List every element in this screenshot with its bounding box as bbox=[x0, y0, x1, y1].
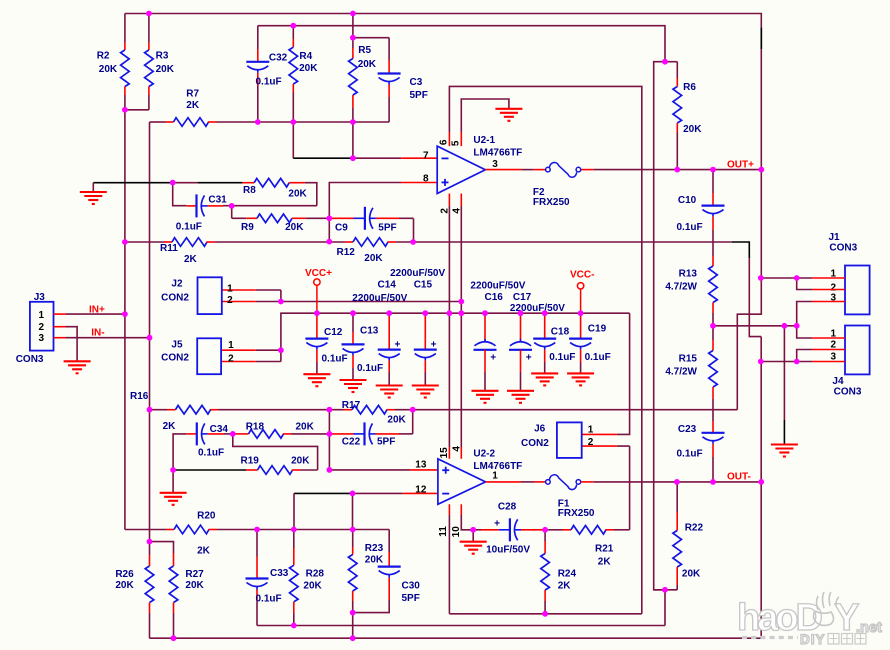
wire pin11 bottom row y=613.8 bbox=[449, 613, 641, 615]
node dots R11/R12 row bbox=[122, 239, 416, 245]
svg-text:C12: C12 bbox=[324, 327, 343, 338]
svg-text:OUT-: OUT- bbox=[727, 472, 751, 483]
wire vertical node x=329.4 from row409 to pin13 bbox=[328, 410, 330, 470]
svg-text:U2-2: U2-2 bbox=[473, 449, 495, 460]
capacitor C34 bbox=[186, 422, 233, 458]
svg-text:R23: R23 bbox=[365, 543, 384, 554]
resistor R5 bbox=[349, 38, 377, 122]
capacitor C12 bbox=[305, 313, 347, 374]
svg-text:5PF: 5PF bbox=[402, 593, 420, 604]
power symbol VCC- bbox=[570, 270, 594, 314]
svg-text:20K: 20K bbox=[288, 189, 307, 200]
resistor R12 bbox=[337, 238, 397, 264]
svg-text:R13: R13 bbox=[679, 269, 698, 280]
capacitor C28 electrolytic bbox=[473, 502, 545, 556]
wire pin13 row bbox=[329, 469, 410, 471]
svg-text:2200uF/50V: 2200uF/50V bbox=[470, 281, 525, 292]
wire OUT- row after fuse F1 bbox=[581, 481, 594, 483]
wire C34 bracket and row y=433.9 bbox=[173, 434, 186, 470]
wire J4 pin2 row bbox=[797, 350, 812, 362]
svg-text:+: + bbox=[395, 340, 401, 351]
resistor R24 bbox=[541, 530, 577, 614]
wire J1 pin3 row bbox=[797, 302, 812, 326]
svg-text:R24: R24 bbox=[558, 569, 577, 580]
svg-text:10uF/50V: 10uF/50V bbox=[486, 545, 530, 556]
svg-text:C33: C33 bbox=[270, 568, 289, 579]
svg-text:20K: 20K bbox=[285, 222, 304, 233]
svg-text:R3: R3 bbox=[156, 51, 169, 62]
svg-text:20K: 20K bbox=[364, 253, 383, 264]
ground symbol C15 bbox=[412, 384, 439, 386]
node IN+ rail1 bbox=[122, 311, 128, 317]
node dots top rail bbox=[146, 11, 356, 17]
ground symbol C12 bbox=[303, 373, 330, 375]
node dots C28 row bbox=[470, 527, 548, 533]
svg-text:0.1uF: 0.1uF bbox=[256, 77, 282, 88]
svg-text:20K: 20K bbox=[296, 422, 315, 433]
svg-text:0.1uF: 0.1uF bbox=[677, 449, 703, 460]
node R5 top bbox=[350, 35, 356, 41]
svg-text:5: 5 bbox=[451, 140, 462, 146]
svg-text:3: 3 bbox=[38, 333, 44, 344]
svg-text:C34: C34 bbox=[210, 424, 229, 435]
resistor R20 bbox=[166, 511, 217, 557]
connector J6 bbox=[521, 422, 594, 458]
wire R13 bottom row to connector bracket bbox=[713, 325, 797, 327]
svg-text:R16: R16 bbox=[130, 391, 149, 402]
node R2/R3 bottom bbox=[122, 107, 128, 113]
connector J3 bbox=[16, 292, 66, 365]
svg-text:R12: R12 bbox=[337, 247, 356, 258]
wire ground stub node A bbox=[172, 470, 174, 493]
capacitor C19 bbox=[569, 313, 611, 373]
wire left rail2 from R7 corner down bbox=[149, 122, 151, 555]
svg-text:1: 1 bbox=[588, 425, 594, 436]
wire pin8 red lead bbox=[401, 182, 437, 184]
svg-text:J4: J4 bbox=[832, 376, 844, 387]
svg-text:2: 2 bbox=[588, 437, 594, 448]
wire J4 pin3 row bbox=[761, 361, 812, 363]
wire pin12 row black and corner bbox=[294, 492, 353, 494]
svg-text:4: 4 bbox=[452, 208, 463, 214]
node pin7 row bbox=[350, 155, 356, 161]
svg-text:0.1uF: 0.1uF bbox=[198, 447, 224, 458]
wire rail A red ends bbox=[448, 194, 450, 207]
wire R7 row y=122 bbox=[150, 121, 166, 123]
svg-text:2: 2 bbox=[227, 295, 233, 306]
svg-text:2K: 2K bbox=[186, 100, 200, 111]
svg-text:10: 10 bbox=[451, 526, 462, 538]
node R23/C30 bottom bbox=[350, 610, 356, 616]
wire ground row maroon middle bbox=[173, 182, 198, 184]
capacitor C23 bbox=[677, 421, 725, 482]
svg-text:+: + bbox=[431, 340, 437, 351]
svg-text:DIY: DIY bbox=[800, 632, 826, 647]
svg-text:C30: C30 bbox=[402, 581, 421, 592]
wire supply rail A x=449.4 between op-amps bbox=[448, 206, 450, 447]
svg-text:R17: R17 bbox=[342, 400, 361, 411]
svg-text:J3: J3 bbox=[34, 292, 46, 303]
resistor R7 bbox=[166, 89, 217, 127]
wire J3 pin1 IN+ to rail1 bbox=[66, 313, 125, 315]
resistor R3 bbox=[125, 14, 175, 110]
node R6/rail654 bbox=[662, 59, 668, 65]
svg-text:C14: C14 bbox=[378, 280, 397, 291]
node dots R13 row bbox=[710, 323, 800, 329]
svg-text:20K: 20K bbox=[303, 580, 322, 591]
node IN- rail2 bbox=[147, 335, 153, 341]
wire vertical x=352.5 pin12 row to R20 row bbox=[352, 493, 354, 529]
svg-text:4.7/2W: 4.7/2W bbox=[665, 282, 697, 293]
wire J2 pin red leads bbox=[222, 289, 256, 291]
svg-text:6: 6 bbox=[439, 139, 450, 145]
wire pin10 corner to C28 row bbox=[460, 504, 462, 515]
wire R8 right bracket to C31 row bbox=[305, 183, 317, 206]
wire J1 pin1 row bbox=[761, 277, 812, 279]
capacitor C10 bbox=[677, 170, 725, 256]
svg-text:8: 8 bbox=[423, 174, 429, 185]
svg-text:C22: C22 bbox=[342, 436, 361, 447]
ground symbol C13 bbox=[340, 379, 367, 381]
svg-text:U2-1: U2-1 bbox=[473, 135, 495, 146]
svg-text:0.1uF: 0.1uF bbox=[677, 222, 703, 233]
connector J5 bbox=[161, 338, 234, 374]
svg-text:R28: R28 bbox=[306, 569, 325, 580]
svg-text:0.1uF: 0.1uF bbox=[357, 363, 383, 374]
resistor R6 bbox=[673, 62, 702, 170]
svg-text:CON3: CON3 bbox=[834, 387, 862, 398]
svg-text:1: 1 bbox=[38, 310, 44, 321]
wire rail B red ends bbox=[460, 194, 462, 207]
capacitor C31 bbox=[176, 194, 227, 232]
svg-text:R11: R11 bbox=[160, 243, 178, 254]
resistor R16 bbox=[130, 391, 210, 432]
ground symbol C19 bbox=[567, 372, 594, 374]
node dots feedback row y=409.7 bbox=[147, 407, 416, 413]
svg-text:2K: 2K bbox=[184, 254, 198, 265]
capacitor C14 electrolytic bbox=[378, 313, 401, 385]
node dots J1 rows bbox=[758, 275, 800, 281]
svg-text:R18: R18 bbox=[246, 422, 265, 433]
node C31 right bbox=[229, 203, 235, 209]
connector J2 bbox=[161, 277, 233, 314]
svg-text:R22: R22 bbox=[685, 523, 704, 534]
svg-text:2K: 2K bbox=[558, 581, 572, 592]
wire pin7 row black segment bbox=[293, 157, 353, 159]
resistor R18 bbox=[233, 422, 330, 439]
svg-text:20K: 20K bbox=[185, 580, 204, 591]
wire pin8 corner and vertical to R9/C9 row bbox=[329, 183, 401, 242]
svg-text:20K: 20K bbox=[387, 415, 406, 426]
resistor R26 bbox=[115, 555, 153, 638]
svg-text:1: 1 bbox=[492, 471, 498, 482]
svg-text:20K: 20K bbox=[683, 124, 702, 135]
wire R5/C3 top bracket bbox=[353, 14, 389, 38]
svg-text:R15: R15 bbox=[679, 354, 698, 365]
ground symbol C28 row bbox=[460, 541, 487, 543]
wire C31 row bbox=[173, 183, 187, 206]
resistor R17 bbox=[342, 400, 407, 426]
ground symbol node A bbox=[160, 492, 187, 494]
svg-text:0.1uF: 0.1uF bbox=[322, 354, 348, 365]
svg-text:R7: R7 bbox=[186, 89, 199, 100]
svg-text:0.1uF: 0.1uF bbox=[549, 352, 575, 363]
wire pin7 feed verticals bbox=[292, 122, 294, 158]
wire R19 row black segment bbox=[174, 469, 246, 471]
svg-text:CON2: CON2 bbox=[161, 353, 189, 364]
svg-text:FRX250: FRX250 bbox=[558, 508, 595, 519]
wire J4 pin1 row bbox=[797, 326, 812, 338]
svg-text:20K: 20K bbox=[682, 569, 701, 580]
svg-text:R27: R27 bbox=[185, 569, 204, 580]
node ground row / C31 bbox=[170, 180, 176, 186]
svg-text:2: 2 bbox=[228, 353, 234, 364]
svg-text:2K: 2K bbox=[598, 557, 612, 568]
svg-text:11: 11 bbox=[438, 526, 449, 537]
svg-text:C23: C23 bbox=[678, 424, 697, 435]
wire pin12 row maroon and red bbox=[353, 492, 403, 494]
svg-text:3: 3 bbox=[492, 159, 498, 170]
capacitor C30 bbox=[353, 530, 421, 613]
node R28 bottom bbox=[291, 623, 297, 629]
node dots OUT+ row bbox=[674, 167, 764, 173]
resistor R13 bbox=[665, 256, 717, 326]
fuse F1 bbox=[546, 475, 595, 519]
wire J3 pin3 IN- to rail2 bbox=[66, 337, 150, 339]
wire ground stub for connectors bbox=[783, 326, 785, 420]
svg-text:+: + bbox=[526, 353, 532, 364]
watermark haoDIY logo bbox=[737, 592, 882, 647]
resistor R27 bbox=[169, 553, 204, 638]
node dots J4 row bbox=[758, 359, 800, 365]
svg-text:C18: C18 bbox=[551, 327, 570, 338]
ground symbol pin5 bbox=[495, 108, 522, 110]
node pin12 row bbox=[350, 491, 356, 497]
svg-text:C32: C32 bbox=[269, 53, 288, 64]
svg-text:13: 13 bbox=[415, 460, 427, 471]
svg-text:R19: R19 bbox=[241, 456, 260, 467]
wire OUT+ row after fuse F2 bbox=[581, 169, 594, 171]
op-amp U2-2 bbox=[438, 449, 522, 505]
resistor R2 bbox=[97, 14, 129, 110]
wire bus1 J2 to rail B y=301.5 bbox=[256, 290, 462, 302]
svg-text:C31: C31 bbox=[208, 195, 227, 206]
svg-text:C3: C3 bbox=[410, 77, 423, 88]
wire J6 pin1 drop from bus2 bbox=[617, 313, 630, 434]
svg-text:C10: C10 bbox=[678, 195, 697, 206]
wire black corner of R11/R12 row bbox=[732, 242, 750, 258]
capacitor C22 bbox=[329, 422, 412, 447]
svg-text:VCC-: VCC- bbox=[570, 270, 594, 281]
svg-text:+: + bbox=[490, 353, 496, 364]
node R9/pin8 bbox=[326, 215, 332, 221]
op-amp U2-1 bbox=[437, 135, 522, 194]
svg-text:J2: J2 bbox=[171, 279, 183, 290]
wire jog to J4 node, OUT- rail down to bottom rail bbox=[149, 258, 761, 638]
svg-text:VCC+: VCC+ bbox=[305, 268, 332, 279]
capacitor C17 electrolytic bbox=[509, 313, 532, 391]
svg-text:IN+: IN+ bbox=[89, 305, 105, 316]
wire J3 pin2 to ground bbox=[66, 327, 77, 362]
node dots bus2 VCC+ bbox=[314, 310, 583, 316]
svg-text:4: 4 bbox=[451, 446, 462, 452]
wire J5 pin red leads bbox=[221, 349, 256, 351]
capacitor C32 bbox=[246, 26, 287, 122]
svg-text:5PF: 5PF bbox=[377, 436, 395, 447]
svg-text:J5: J5 bbox=[171, 339, 183, 350]
svg-text:J1: J1 bbox=[829, 232, 841, 243]
svg-text:5PF: 5PF bbox=[410, 90, 428, 101]
capacitor C16 electrolytic bbox=[474, 313, 497, 391]
capacitor C18 bbox=[533, 313, 575, 373]
wire pin1 output leads bbox=[486, 481, 522, 483]
wire pin7 row to op-amp bbox=[353, 157, 401, 159]
wire supply rail B x=461.3 between op-amps bbox=[460, 206, 462, 447]
wire left rail1 from R2/R3 bottom down bbox=[124, 110, 126, 530]
svg-text:20K: 20K bbox=[365, 555, 384, 566]
resistor R4 bbox=[289, 26, 318, 122]
wire R20 row y=529.5 bbox=[125, 529, 166, 531]
wire C9 right corner down bbox=[413, 218, 415, 242]
wire bus2 VCC+ y=313.2 from J5 riser to J6 corner bbox=[256, 313, 630, 361]
ground symbol connectors bbox=[771, 443, 798, 445]
resistor R22 bbox=[673, 482, 704, 590]
svg-text:C15: C15 bbox=[414, 280, 433, 291]
svg-text:IN-: IN- bbox=[91, 328, 104, 339]
wire rail x=654 from node down to R22 bottom row bbox=[654, 62, 665, 590]
resistor R23 bbox=[348, 530, 384, 639]
connector J1 bbox=[829, 232, 870, 314]
svg-text:J6: J6 bbox=[534, 424, 546, 435]
svg-text:2: 2 bbox=[38, 322, 44, 333]
resistor R21 bbox=[545, 526, 630, 568]
resistor R19 bbox=[241, 456, 318, 475]
svg-text:CON2: CON2 bbox=[161, 292, 189, 303]
svg-text:R9: R9 bbox=[241, 222, 254, 233]
svg-text:OUT+: OUT+ bbox=[727, 160, 754, 171]
wire C31 to R9 bracket bbox=[231, 206, 233, 219]
svg-text:R21: R21 bbox=[595, 544, 614, 555]
svg-text:FRX250: FRX250 bbox=[533, 197, 570, 208]
power symbol VCC+ bbox=[305, 268, 332, 313]
svg-text:0.1uF: 0.1uF bbox=[256, 593, 282, 604]
ground symbol C17 bbox=[507, 390, 534, 392]
svg-text:20K: 20K bbox=[115, 580, 134, 591]
ground symbol C18 bbox=[531, 372, 558, 374]
svg-text:C17: C17 bbox=[513, 292, 532, 303]
svg-text:R26: R26 bbox=[115, 569, 134, 580]
svg-text:12: 12 bbox=[415, 485, 427, 496]
wire pin5 to ground bbox=[461, 99, 509, 132]
wire R9/C9 row bbox=[232, 217, 247, 219]
wire J6 pin1 red lead bbox=[582, 433, 617, 435]
svg-text:R6: R6 bbox=[683, 82, 696, 93]
svg-text:15: 15 bbox=[439, 447, 450, 459]
wire R11/R12 row y=242 bbox=[125, 241, 164, 243]
svg-text:R5: R5 bbox=[358, 45, 371, 56]
svg-text:R2: R2 bbox=[97, 51, 110, 62]
svg-text:20K: 20K bbox=[99, 64, 118, 75]
svg-text:2200uF/50V: 2200uF/50V bbox=[352, 293, 407, 304]
resistor R9 bbox=[241, 214, 306, 233]
ground symbol C14 bbox=[376, 384, 403, 386]
wire node to R6 column bbox=[665, 61, 677, 63]
svg-text:CON3: CON3 bbox=[16, 354, 44, 365]
svg-text:1: 1 bbox=[228, 340, 234, 351]
resistor R11 bbox=[160, 238, 215, 265]
wire pin3 output leads bbox=[485, 169, 521, 171]
wire R22 bottom row bbox=[654, 589, 678, 591]
node R22 bottom bbox=[662, 587, 668, 593]
ground symbol C16 bbox=[472, 390, 499, 392]
wire R26/R27 top bracket bbox=[150, 542, 174, 553]
svg-text:20K: 20K bbox=[299, 63, 318, 74]
svg-text:R20: R20 bbox=[197, 511, 216, 522]
svg-text:CON3: CON3 bbox=[829, 243, 857, 254]
svg-text:5PF: 5PF bbox=[378, 223, 396, 234]
wire feedback row y=409.7 R16/R17 bbox=[150, 409, 168, 411]
ground symbol J3 bbox=[64, 360, 91, 362]
wire pin11 down to bottom row bbox=[448, 504, 450, 515]
svg-text:4.7/2W: 4.7/2W bbox=[665, 367, 697, 378]
wire black overlay right rail bbox=[760, 28, 762, 49]
node dots R7 row bbox=[255, 119, 356, 125]
node dots bottom rail bbox=[171, 635, 356, 641]
svg-text:20K: 20K bbox=[291, 456, 310, 467]
wire R19 bracket bbox=[233, 434, 318, 470]
svg-text:R4: R4 bbox=[299, 51, 312, 62]
wire C28 row ground stub bbox=[472, 530, 474, 542]
node dots OUT- row bbox=[674, 479, 764, 485]
svg-text:CON2: CON2 bbox=[521, 438, 549, 449]
svg-text:LM4766TF: LM4766TF bbox=[473, 148, 522, 159]
svg-text:C19: C19 bbox=[588, 324, 607, 335]
svg-text:C9: C9 bbox=[335, 223, 348, 234]
capacitor C33 bbox=[246, 530, 289, 626]
node dots bus1 bbox=[278, 299, 464, 305]
svg-text:0.1uF: 0.1uF bbox=[176, 222, 202, 233]
svg-text:0.1uF: 0.1uF bbox=[585, 352, 611, 363]
node dots C34/R18/C22 row bbox=[230, 431, 332, 437]
svg-text:2K: 2K bbox=[163, 421, 177, 432]
svg-text:2: 2 bbox=[439, 208, 450, 214]
wire OUT+ net top rail and right rail with jog to feedback row bbox=[125, 14, 761, 410]
fuse F2 bbox=[533, 162, 581, 207]
resistor R15 bbox=[665, 326, 717, 421]
wire J6 pin2 drop to R21 bbox=[617, 446, 630, 530]
connector J4 bbox=[830, 326, 869, 398]
wire pin6 net up and rail x=642 down to pin11 row bbox=[449, 86, 641, 613]
node dots R20 row bbox=[254, 527, 356, 533]
resistor R8 bbox=[242, 178, 307, 199]
svg-text:20K: 20K bbox=[156, 64, 175, 75]
svg-text:C13: C13 bbox=[360, 326, 379, 337]
svg-text:C28: C28 bbox=[498, 502, 517, 513]
svg-text:2200uF/50V: 2200uF/50V bbox=[390, 268, 445, 279]
wire C33/R28 bottoms row y=625.5 up to R22 bottom bbox=[257, 590, 665, 626]
capacitor C13 bbox=[342, 313, 384, 380]
resistor R28 bbox=[290, 530, 325, 626]
node J5 pins bbox=[278, 347, 284, 353]
wire C22 right corner up to feedback row bbox=[412, 410, 414, 434]
ground symbol top-left bbox=[92, 183, 94, 192]
capacitor C9 bbox=[331, 207, 399, 234]
wire C32/R4/R6 net top y=25.7 bbox=[258, 26, 665, 62]
capacitor C3 bbox=[378, 38, 428, 122]
wire J6 pin2 red lead bbox=[582, 445, 617, 447]
svg-text:1: 1 bbox=[227, 284, 233, 295]
node dots R19/pin13 row bbox=[170, 467, 332, 473]
